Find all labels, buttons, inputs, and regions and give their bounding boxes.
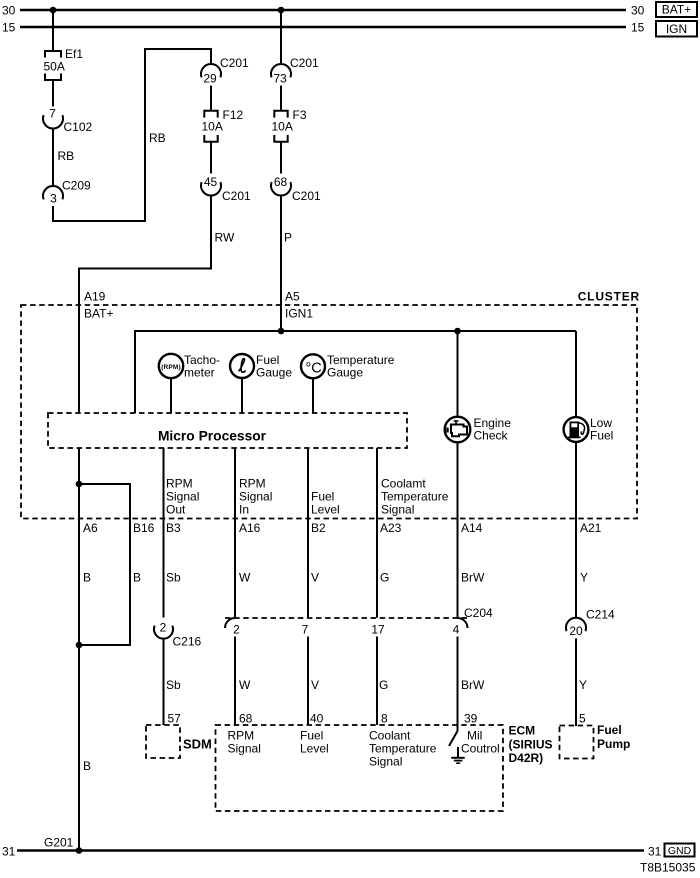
svg-text:In: In	[239, 503, 249, 517]
wire F3 to pin 68	[280, 142, 282, 174]
svg-text:C201: C201	[222, 189, 251, 203]
junction bus30 / Ef1	[50, 7, 57, 14]
svg-text:4: 4	[453, 623, 460, 637]
svg-text:45: 45	[204, 175, 218, 189]
svg-text:Y: Y	[580, 571, 588, 585]
svg-text:B16: B16	[133, 521, 155, 535]
cluster box	[21, 290, 640, 519]
svg-text:A16: A16	[239, 521, 261, 535]
svg-text:30: 30	[631, 4, 645, 18]
wire B2/V to C204	[308, 448, 340, 618]
svg-text:C216: C216	[173, 635, 202, 649]
svg-text:BAT+: BAT+	[84, 307, 113, 321]
wire P to cluster A5	[281, 196, 313, 332]
wire Sb C216 to SDM pin 57	[164, 638, 182, 725]
junction A6/B16 top	[76, 481, 83, 488]
wire fuel gauge to micro processor	[241, 378, 243, 413]
svg-text:G: G	[379, 678, 388, 692]
svg-text:G: G	[380, 571, 389, 585]
svg-text:40: 40	[310, 712, 324, 726]
junction IGN1 / A5	[278, 328, 285, 335]
svg-text:2: 2	[233, 623, 240, 637]
svg-text:SDM: SDM	[183, 737, 212, 752]
connector C209 pin 3	[43, 179, 91, 206]
fuel pump box	[560, 723, 631, 759]
svg-text:meter: meter	[184, 366, 215, 380]
inline connector C204	[225, 606, 493, 637]
svg-text:Coolant: Coolant	[369, 729, 411, 743]
wire bus30 to C201 pin 73	[280, 10, 282, 64]
svg-text:2: 2	[160, 621, 167, 635]
connector C201 pin 45	[201, 175, 251, 203]
svg-text:CLUSTER: CLUSTER	[578, 290, 640, 304]
wire W C204 to ECM pin 68	[235, 637, 253, 726]
svg-text:30: 30	[2, 4, 16, 18]
wire Ef1 to C102	[52, 80, 54, 107]
switch mil control	[449, 731, 458, 746]
svg-text:Y: Y	[579, 678, 587, 692]
wire V C204 to ECM pin 40	[308, 637, 324, 726]
svg-text:68: 68	[239, 712, 253, 726]
svg-text:50A: 50A	[44, 60, 65, 74]
wire F12 to pin 45	[210, 142, 212, 174]
SDM box	[146, 725, 212, 758]
svg-text:GND: GND	[668, 845, 692, 857]
gauge tachometer	[159, 353, 220, 380]
svg-text:Signal: Signal	[166, 490, 199, 504]
svg-text:A21: A21	[580, 521, 602, 535]
svg-text:10A: 10A	[202, 120, 223, 134]
wire B3/Sb to C216	[164, 448, 200, 618]
connector C214 pin 20	[566, 608, 615, 639]
svg-text:Check: Check	[474, 429, 509, 443]
svg-text:ECM: ECM	[509, 724, 536, 738]
svg-text:Sb: Sb	[166, 678, 181, 692]
svg-text:C102: C102	[64, 120, 93, 134]
connector C201 pin 73	[271, 56, 319, 86]
svg-text:BrW: BrW	[461, 571, 485, 585]
loop wire B16	[79, 484, 155, 645]
svg-text:(SIRIUS: (SIRIUS	[509, 738, 553, 752]
svg-text:68: 68	[274, 175, 288, 189]
svg-text:Sb: Sb	[166, 571, 181, 585]
svg-text:Level: Level	[311, 503, 340, 517]
svg-text:20: 20	[569, 624, 583, 638]
fuse F3 10A	[272, 108, 307, 142]
wire low fuel to A21	[576, 331, 602, 618]
IGN net box	[656, 21, 697, 37]
svg-text:A6: A6	[83, 521, 98, 535]
svg-text:T8B15035: T8B15035	[640, 861, 696, 875]
svg-text:29: 29	[203, 72, 217, 86]
svg-text:Fuel: Fuel	[597, 723, 622, 737]
wire A6/B down to ground	[79, 448, 98, 851]
svg-text:31: 31	[2, 845, 16, 859]
svg-text:RB: RB	[58, 149, 75, 163]
svg-text:Gauge: Gauge	[327, 366, 363, 380]
svg-text:Micro Processor: Micro Processor	[158, 429, 267, 444]
connector C102 pin 7	[43, 107, 93, 135]
svg-text:A23: A23	[380, 521, 402, 535]
svg-text:Ef1: Ef1	[65, 47, 83, 61]
connector C201 pin 29	[201, 56, 249, 86]
wire temperature gauge to micro processor	[312, 378, 314, 413]
wire bus30 to fuse Ef1	[52, 10, 54, 51]
svg-text:C214: C214	[586, 608, 615, 622]
svg-text:10A: 10A	[272, 120, 293, 134]
svg-text:G201: G201	[44, 836, 74, 850]
svg-text:P: P	[284, 231, 292, 245]
svg-text:C201: C201	[292, 189, 321, 203]
svg-text:W: W	[239, 571, 251, 585]
ground bus 31	[2, 845, 662, 859]
wire Y C214 to fuel pump pin 5	[576, 638, 587, 726]
svg-text:RB: RB	[149, 131, 166, 145]
svg-text:Gauge: Gauge	[256, 366, 292, 380]
wire G C204 to ECM pin 8	[377, 637, 388, 726]
ECM box	[216, 725, 504, 811]
wire BrW C204 to ECM pin 39	[458, 637, 486, 732]
wire A16/W to C204	[235, 448, 272, 618]
svg-text:A19: A19	[84, 290, 106, 304]
svg-text:C204: C204	[464, 606, 493, 620]
svg-text:RW: RW	[215, 231, 235, 245]
gauge fuel	[230, 353, 292, 380]
svg-text:Signal: Signal	[228, 742, 261, 756]
svg-text:17: 17	[371, 623, 385, 637]
GND net box	[665, 844, 695, 858]
wire A23/G to C204	[377, 448, 449, 618]
wire RB C102 to C209	[53, 129, 74, 187]
fuse Ef1 50A	[44, 47, 84, 80]
svg-text:Temperature: Temperature	[369, 742, 437, 756]
svg-text:15: 15	[2, 21, 16, 35]
svg-text:7: 7	[302, 623, 309, 637]
svg-text:C201: C201	[290, 56, 319, 70]
wire RB jog up to C201 pin 29	[53, 49, 211, 221]
svg-text:31: 31	[648, 845, 662, 859]
svg-text:V: V	[311, 678, 319, 692]
svg-text:IGN1: IGN1	[285, 307, 313, 321]
svg-text:D42R): D42R)	[509, 751, 544, 765]
wire tachometer to micro processor	[170, 378, 172, 413]
bus 30	[20, 9, 626, 11]
svg-text:39: 39	[464, 712, 478, 726]
svg-text:(RPM): (RPM)	[161, 364, 181, 371]
fuse F12 10A	[202, 108, 244, 142]
BAT+ net box	[656, 2, 697, 17]
svg-text:5: 5	[579, 712, 586, 726]
svg-text:BrW: BrW	[461, 678, 485, 692]
svg-text:7: 7	[49, 107, 56, 121]
svg-text:F3: F3	[293, 108, 307, 122]
svg-text:B: B	[133, 571, 141, 585]
junction bus30 / F3 branch	[278, 7, 285, 14]
wire 29 to F12	[210, 86, 212, 111]
wire 73 to F3	[280, 86, 282, 111]
svg-text:Signal: Signal	[239, 490, 272, 504]
svg-text:Coolamt: Coolamt	[381, 477, 426, 491]
junction A6/B16 bottom	[76, 642, 83, 649]
svg-text:Signal: Signal	[381, 503, 414, 517]
connector C201 pin 68	[271, 175, 321, 203]
svg-text:B: B	[83, 759, 91, 773]
ECM label	[509, 724, 553, 766]
svg-text:IGN: IGN	[666, 22, 687, 36]
svg-text:73: 73	[273, 72, 287, 86]
svg-text:RPM: RPM	[239, 477, 266, 491]
svg-text:Signal: Signal	[369, 755, 402, 769]
svg-text:Temperature: Temperature	[381, 490, 449, 504]
wire RW to cluster A19	[79, 196, 235, 414]
svg-text:57: 57	[168, 712, 182, 726]
junction IGN1 / engine check	[454, 328, 461, 335]
svg-text:C201: C201	[220, 56, 249, 70]
svg-text:Fuel: Fuel	[311, 490, 334, 504]
svg-text:Pump: Pump	[597, 737, 630, 751]
svg-text:BAT+: BAT+	[662, 3, 691, 17]
svg-text:Fuel: Fuel	[300, 729, 323, 743]
svg-text:Out: Out	[166, 503, 186, 517]
svg-text:B2: B2	[311, 521, 326, 535]
svg-text:Level: Level	[300, 742, 329, 756]
svg-text:15: 15	[631, 21, 645, 35]
gauge temperature	[301, 353, 395, 380]
svg-text:W: W	[239, 678, 251, 692]
svg-text:B: B	[83, 571, 91, 585]
svg-text:Coutrol: Coutrol	[461, 742, 500, 756]
svg-text:C209: C209	[62, 179, 91, 193]
IGN1 rail inside cluster	[135, 331, 576, 413]
svg-text:F12: F12	[223, 108, 244, 122]
svg-text:RPM: RPM	[166, 477, 193, 491]
ground G201 junction	[44, 836, 82, 854]
wire engine check to A14	[458, 331, 486, 618]
svg-text:B3: B3	[166, 521, 181, 535]
connector C216 pin 2	[154, 621, 202, 649]
svg-text:8: 8	[381, 712, 388, 726]
svg-text:V: V	[311, 571, 319, 585]
indicator engine check	[445, 416, 511, 443]
micro processor box	[48, 413, 407, 448]
svg-text:A5: A5	[285, 290, 300, 304]
svg-text:Mil: Mil	[467, 729, 482, 743]
indicator low fuel	[564, 416, 614, 443]
bus 15	[20, 26, 626, 28]
svg-text:Fuel: Fuel	[590, 429, 613, 443]
svg-text:3: 3	[50, 192, 57, 206]
svg-text:°C: °C	[306, 360, 322, 376]
svg-text:A14: A14	[461, 521, 483, 535]
ground symbol in ECM	[451, 747, 465, 763]
svg-text:RPM: RPM	[228, 729, 255, 743]
